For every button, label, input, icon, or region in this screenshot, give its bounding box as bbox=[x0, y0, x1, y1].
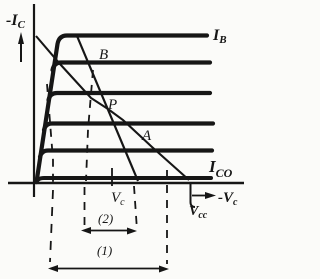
svg-text:(1): (1) bbox=[97, 243, 112, 258]
dashed vertical at left swing limit bbox=[47, 84, 53, 182]
y-axis (-Ic axis) bbox=[33, 4, 35, 197]
dimension arrow (1) bbox=[48, 265, 169, 273]
dashed vertical at right swing limit bbox=[166, 170, 168, 264]
Vc tick on axis bbox=[111, 168, 113, 186]
curve 2 bbox=[53, 63, 211, 71]
dc load line (through B and P) bbox=[36, 36, 189, 180]
ac load line (steep, through P) bbox=[77, 36, 138, 181]
curve 3 bbox=[49, 93, 211, 100]
svg-text:A: A bbox=[141, 128, 152, 144]
dashed vertical at left swing limit (below axis) bbox=[50, 190, 53, 262]
dashed vertical below B bbox=[86, 70, 93, 181]
x-axis (-Vc axis) bbox=[8, 182, 244, 185]
dashed vertical below B (under axis) bbox=[84, 187, 86, 228]
curve 4 bbox=[44, 124, 213, 131]
Vcc arrow pointing right bbox=[192, 192, 216, 199]
svg-text:P: P bbox=[107, 97, 117, 113]
dimension arrow (2) bbox=[81, 227, 137, 235]
saturation riser + top curve IB bbox=[37, 36, 208, 183]
dashed vertical at ac-line intercept bbox=[134, 186, 137, 230]
y-axis small up arrow bbox=[18, 32, 24, 62]
Vcc tick below axis bbox=[191, 184, 196, 207]
svg-text:(2): (2) bbox=[98, 211, 113, 226]
curve 5 bbox=[40, 151, 212, 158]
svg-text:B: B bbox=[99, 47, 108, 63]
curve Ico bbox=[37, 178, 212, 182]
